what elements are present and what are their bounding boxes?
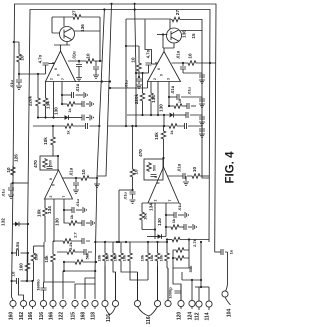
svg-text:10k: 10k xyxy=(105,254,110,261)
capacitor xyxy=(84,249,86,255)
capacitor xyxy=(82,115,84,121)
svg-text:6: 6 xyxy=(157,182,161,184)
junction xyxy=(165,214,167,216)
resistor 10k (bank) xyxy=(128,252,133,262)
wire Q1 to right rail xyxy=(74,30,100,32)
wire to terminal xyxy=(104,262,106,300)
wire xyxy=(188,226,192,228)
wire Q1 emitter to U1 apex xyxy=(54,42,70,52)
wire xyxy=(142,73,144,92)
wire xyxy=(132,178,134,190)
svg-text:112: 112 xyxy=(195,312,201,320)
svg-text:10: 10 xyxy=(188,53,193,59)
svg-text:1k: 1k xyxy=(69,214,74,219)
svg-text:116: 116 xyxy=(39,312,45,320)
junction xyxy=(26,280,28,282)
capacitor .01u xyxy=(76,65,82,67)
junction xyxy=(154,228,156,230)
resistor 10k (below U3) xyxy=(43,207,48,217)
wire xyxy=(166,242,168,252)
capacitor 4.7u (left) xyxy=(43,63,49,65)
svg-text:1k: 1k xyxy=(171,218,176,223)
wire xyxy=(18,63,20,74)
diode 132 xyxy=(15,222,19,227)
svg-text:10: 10 xyxy=(134,169,139,175)
ground xyxy=(136,85,142,88)
svg-text:10k: 10k xyxy=(143,212,148,219)
wire xyxy=(201,101,203,103)
wire row 241 xyxy=(53,240,90,242)
wire node row 126 xyxy=(33,125,99,127)
svg-text:1o: 1o xyxy=(229,249,234,254)
op-amp U1 xyxy=(46,51,76,82)
wire diode row xyxy=(147,236,158,238)
svg-text:10k: 10k xyxy=(159,254,164,261)
svg-text:10k: 10k xyxy=(43,137,48,145)
terminal xyxy=(134,300,140,306)
svg-text:10k: 10k xyxy=(149,254,154,261)
svg-text:4.7o: 4.7o xyxy=(146,49,151,58)
wire to 115 xyxy=(75,284,95,299)
resistor 2.7k xyxy=(62,239,72,244)
capacitor (row 126 right) xyxy=(185,123,187,129)
wire row 242 xyxy=(95,241,167,243)
wire xyxy=(163,140,165,158)
junction xyxy=(200,241,202,243)
ground xyxy=(73,190,79,193)
wire row 210 xyxy=(64,209,72,211)
wire xyxy=(201,175,210,177)
wire xyxy=(27,246,34,281)
terminal 168 xyxy=(82,300,88,306)
wire xyxy=(45,65,47,74)
resistor 10k (bank) xyxy=(119,252,124,262)
junction xyxy=(94,241,96,243)
wire xyxy=(75,178,77,182)
svg-text:132: 132 xyxy=(1,218,6,226)
junction xyxy=(163,125,165,127)
wire xyxy=(148,65,150,73)
svg-text:2: 2 xyxy=(50,78,54,80)
junction xyxy=(44,116,46,118)
wire xyxy=(185,176,187,181)
capacitor 6.8u xyxy=(17,250,19,256)
wire U1 pin2 lead xyxy=(53,82,55,118)
svg-text:160: 160 xyxy=(19,263,24,271)
junction xyxy=(63,209,65,211)
wire to terminal xyxy=(121,262,138,300)
wire Q2 emitter to U2 apex xyxy=(163,35,174,52)
svg-text:166: 166 xyxy=(49,312,55,321)
wire U2 pin2 lead xyxy=(157,82,159,116)
resistor 10 (U4 left) xyxy=(130,168,135,178)
op-amp U3 xyxy=(45,170,73,199)
junction xyxy=(61,94,63,96)
junction xyxy=(110,3,112,5)
wire lead 162 xyxy=(19,281,24,300)
junction xyxy=(52,125,54,127)
wire xyxy=(163,126,165,130)
wire U2 output row xyxy=(172,62,217,64)
junction xyxy=(116,241,118,243)
wire xyxy=(166,215,170,227)
svg-text:134: 134 xyxy=(149,203,154,211)
junction xyxy=(141,114,143,116)
junction xyxy=(162,157,164,159)
wire mid bus A xyxy=(95,10,104,273)
wire xyxy=(166,262,168,268)
wire U2 inverting row xyxy=(136,72,149,74)
junction xyxy=(166,238,168,240)
wire Q2 to right rail xyxy=(181,30,203,32)
svg-text:6: 6 xyxy=(157,68,161,70)
terminal 120 xyxy=(178,300,184,306)
wire xyxy=(19,223,28,225)
diode (lower right) xyxy=(158,234,162,239)
resistor 55k xyxy=(175,256,185,261)
wire xyxy=(69,117,83,119)
ground xyxy=(94,184,100,187)
resistor 10k (bank R) xyxy=(165,252,170,262)
diode 130 (right) xyxy=(170,113,174,118)
svg-text:1600o: 1600o xyxy=(36,279,41,291)
wire U1 base-right row xyxy=(76,81,111,83)
ground xyxy=(183,182,189,185)
ground xyxy=(199,80,205,83)
wire to terminal xyxy=(113,262,116,300)
wire xyxy=(162,227,167,237)
resistor 10k (bank R) xyxy=(155,252,160,262)
wire xyxy=(201,77,203,79)
wire xyxy=(12,223,15,225)
resistor 220k (left) xyxy=(36,97,41,107)
capacitor .01u xyxy=(72,92,74,98)
capacitor xyxy=(199,117,205,119)
svg-text:6: 6 xyxy=(52,184,56,186)
svg-text:55k: 55k xyxy=(188,265,193,272)
wire curved pair to label 116 xyxy=(105,307,116,315)
junction xyxy=(147,241,149,243)
wire to 168 xyxy=(85,278,95,299)
wire row 239 xyxy=(167,239,171,241)
capacitor xyxy=(199,99,205,101)
wire xyxy=(75,185,77,189)
junction xyxy=(31,280,33,282)
svg-text:FIG. 4: FIG. 4 xyxy=(225,151,237,184)
wire xyxy=(78,67,80,78)
wire outer frame (left, top, right) xyxy=(12,4,217,297)
wire U4 pin7 down xyxy=(165,203,167,215)
resistor 1k (row 106) xyxy=(173,104,183,109)
wire terminal feeds xyxy=(192,280,209,301)
junction xyxy=(141,72,143,74)
svg-text:120: 120 xyxy=(177,312,183,321)
wire xyxy=(18,74,20,79)
wire xyxy=(78,61,80,64)
junction xyxy=(27,252,29,254)
junction xyxy=(57,155,59,157)
svg-text:136: 136 xyxy=(80,24,85,32)
junction xyxy=(75,177,77,179)
capacitor .01u (margin low) xyxy=(8,188,14,190)
wire xyxy=(147,242,149,252)
junction xyxy=(156,241,158,243)
wire Q2 base xyxy=(157,34,167,36)
junction xyxy=(61,103,63,105)
resistor 10k (bank) xyxy=(111,252,116,262)
junction xyxy=(96,177,98,179)
wire node row 115 (right) xyxy=(127,114,169,116)
wire xyxy=(52,263,54,300)
svg-text:27: 27 xyxy=(72,10,77,16)
wire mid bus B xyxy=(97,4,112,176)
resistor 10 (U2 out) xyxy=(187,61,197,66)
svg-text:10k: 10k xyxy=(97,254,102,261)
capacitor .01u (margin) xyxy=(16,80,22,82)
svg-text:9: 9 xyxy=(57,74,61,76)
wire xyxy=(138,72,140,78)
svg-text:134: 134 xyxy=(151,95,156,103)
resistor 10 (right margin) xyxy=(137,62,142,72)
wire to 104 xyxy=(215,251,221,253)
resistor 220k (right) xyxy=(140,92,145,102)
junction xyxy=(52,116,54,118)
wire U2 pin7 column xyxy=(168,82,170,107)
wire lead 160 xyxy=(12,297,14,300)
junction xyxy=(125,241,127,243)
terminal 122 xyxy=(60,300,66,306)
svg-text:10k: 10k xyxy=(154,132,159,140)
wire xyxy=(90,177,97,179)
terminal 114 xyxy=(206,301,212,307)
capacitor .01u xyxy=(72,207,74,213)
junction xyxy=(63,261,65,263)
ground xyxy=(91,220,94,226)
parallel loop 55k xyxy=(173,240,189,269)
junction xyxy=(109,80,111,82)
svg-text:2: 2 xyxy=(153,78,157,80)
svg-text:10k: 10k xyxy=(34,253,39,260)
junction xyxy=(135,72,137,74)
transistor Q2 136 xyxy=(167,28,182,43)
svg-text:470: 470 xyxy=(33,160,38,168)
wire 10k feed xyxy=(52,126,54,156)
svg-text:130: 130 xyxy=(159,104,164,112)
capacitor (U4 box) xyxy=(151,175,157,177)
ground xyxy=(199,104,205,107)
junction xyxy=(95,261,97,263)
wire Q2 collector xyxy=(169,20,171,30)
wire xyxy=(147,262,149,280)
junction xyxy=(125,125,127,127)
ground xyxy=(185,212,188,218)
junction xyxy=(99,60,101,62)
svg-text:7: 7 xyxy=(168,199,172,201)
wire xyxy=(163,115,165,126)
feedback box U4 xyxy=(144,159,163,180)
svg-text:1k: 1k xyxy=(67,130,71,135)
wire 6.8u row xyxy=(12,252,16,254)
wire curved pair to label 116 (second) xyxy=(138,307,158,316)
svg-text:10: 10 xyxy=(131,57,136,63)
svg-text:.01u: .01u xyxy=(9,79,14,88)
capacitor xyxy=(199,129,205,131)
resistor 10k (left mid) xyxy=(51,136,56,146)
wire fork row xyxy=(195,286,209,288)
ground xyxy=(84,92,87,98)
junction xyxy=(182,62,184,64)
wire U2 base-left row xyxy=(110,82,148,89)
wire margin feed xyxy=(14,42,19,53)
wire row 104 xyxy=(62,103,66,105)
op-amp U4 xyxy=(148,167,179,203)
capacitor .01u (U4 left) xyxy=(130,192,136,194)
wire xyxy=(119,189,133,191)
capacitor 1u xyxy=(82,238,84,244)
capacitor (row 126) xyxy=(86,123,88,129)
wire xyxy=(37,74,39,97)
svg-text:15: 15 xyxy=(191,33,196,39)
svg-text:56k: 56k xyxy=(85,252,90,259)
junction xyxy=(104,241,106,243)
wire xyxy=(190,115,202,116)
junction xyxy=(18,73,20,75)
svg-text:136: 136 xyxy=(182,30,187,38)
wire U3 output row xyxy=(62,177,76,179)
junction xyxy=(168,105,170,107)
wire xyxy=(183,105,187,107)
wire xyxy=(96,178,98,183)
svg-text:2.7: 2.7 xyxy=(73,231,78,237)
svg-text:.01u: .01u xyxy=(187,86,192,95)
ground xyxy=(90,101,93,107)
junction xyxy=(13,41,15,43)
resistor 134 (right) xyxy=(149,92,154,102)
wire curve into terminal 104 xyxy=(226,282,228,291)
svg-text:220k: 220k xyxy=(134,93,139,104)
wire inner frame xyxy=(27,10,210,282)
svg-text:162: 162 xyxy=(19,312,25,321)
wire U1 inverting input row xyxy=(19,73,46,75)
svg-text:.01u: .01u xyxy=(124,79,129,88)
terminal 124 xyxy=(189,300,195,306)
capacitor 1600 xyxy=(41,288,47,290)
capacitor xyxy=(186,112,188,118)
terminal 115 xyxy=(72,300,78,306)
wire xyxy=(45,82,47,98)
wire Q1 collector xyxy=(63,17,65,27)
resistor 500 (U3 box) xyxy=(43,158,48,168)
junction xyxy=(135,125,137,127)
wire row 183 xyxy=(13,182,29,184)
svg-text:10: 10 xyxy=(20,55,25,61)
svg-text:470: 470 xyxy=(138,149,143,157)
capacitor .01u xyxy=(180,67,186,69)
junction xyxy=(191,279,193,281)
svg-text:122: 122 xyxy=(59,312,65,321)
resistor 1k (below U3) xyxy=(68,221,78,226)
resistor 134 (left) xyxy=(43,97,48,107)
wire to 122 xyxy=(62,271,64,299)
resistor 2.2k xyxy=(66,250,76,255)
wire xyxy=(142,221,155,230)
capacitor .01u (right margin) xyxy=(136,79,142,81)
wire lead terminal 104 xyxy=(225,297,231,305)
wire xyxy=(76,103,82,105)
svg-text:7: 7 xyxy=(62,195,66,197)
capacitor .01u xyxy=(177,94,179,100)
terminal 166 xyxy=(50,300,56,306)
junction xyxy=(166,241,168,243)
resistor 10k (bank) xyxy=(103,252,108,262)
junction xyxy=(103,8,105,10)
svg-text:160: 160 xyxy=(9,312,15,321)
resistor 160 xyxy=(25,262,30,272)
op-amp U2 xyxy=(148,52,181,82)
junction xyxy=(101,80,103,82)
svg-text:2.7k: 2.7k xyxy=(192,238,197,247)
wire box feed to 4.7 cap xyxy=(145,20,152,65)
svg-text:126: 126 xyxy=(14,154,19,162)
wire U1 input stub xyxy=(49,63,55,65)
svg-text:166: 166 xyxy=(28,312,34,321)
svg-text:4.7o: 4.7o xyxy=(38,54,43,63)
wire row 280 xyxy=(182,279,201,281)
wire xyxy=(78,222,82,224)
wire xyxy=(104,242,106,252)
wire xyxy=(174,114,187,116)
wire rail 119 xyxy=(118,190,120,242)
resistor 10 (margin top) xyxy=(17,53,22,63)
svg-text:.01u: .01u xyxy=(72,51,77,60)
wire xyxy=(10,183,12,187)
wire xyxy=(181,97,202,98)
wire xyxy=(44,217,46,242)
junction xyxy=(209,62,211,64)
svg-text:.01u: .01u xyxy=(1,188,6,197)
svg-text:10k: 10k xyxy=(140,254,145,261)
svg-text:.01u: .01u xyxy=(177,163,182,172)
wire xyxy=(166,240,168,243)
wire xyxy=(201,131,203,133)
terminal 112 xyxy=(196,301,202,307)
wire row 97 xyxy=(169,96,177,98)
svg-text:.01u: .01u xyxy=(176,50,181,59)
ground xyxy=(199,134,205,137)
junction xyxy=(157,114,159,116)
wire xyxy=(26,253,28,281)
junction xyxy=(138,76,140,78)
wire xyxy=(10,190,12,194)
junction xyxy=(37,116,39,118)
wire xyxy=(86,117,89,119)
resistor 1k (row 104) xyxy=(66,102,76,107)
capacitor xyxy=(199,75,205,77)
resistor 10k (bank R) xyxy=(146,252,151,262)
svg-text:10k: 10k xyxy=(122,254,127,261)
wire xyxy=(182,63,184,66)
wire row 215 xyxy=(166,214,174,216)
wire xyxy=(95,69,97,75)
svg-text:134: 134 xyxy=(46,101,51,109)
resistor 10 (U4 out) xyxy=(191,174,201,179)
junction xyxy=(163,114,165,116)
capacitor 4.7u xyxy=(146,63,152,65)
resistor 10k (right mid) xyxy=(161,130,166,140)
capacitor 1000p xyxy=(175,291,181,293)
resistor 27 (right) xyxy=(171,17,181,22)
capacitor xyxy=(82,220,84,226)
